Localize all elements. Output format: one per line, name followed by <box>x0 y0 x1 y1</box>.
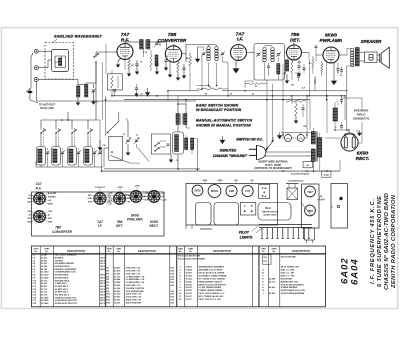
svg-text:22-716: 22-716 <box>41 292 48 294</box>
socket X2 7B8 converter <box>34 211 46 223</box>
wire riser osc <box>167 90 169 101</box>
svg-text:40 MMFD: 40 MMFD <box>55 256 64 259</box>
svg-text:(W) IN OHM MEG.: (W) IN OHM MEG. <box>281 256 297 258</box>
svg-text:+250V: +250V <box>117 187 123 189</box>
transformer T6 power secondary <box>318 138 322 158</box>
tube V1 7A7 RF <box>117 44 133 60</box>
coil L2 antenna primary <box>77 86 80 97</box>
svg-text:DIAL 1.0 - TN1: DIAL 1.0 - TN1 <box>281 272 295 275</box>
svg-text:SPKR: SPKR <box>218 180 224 182</box>
svg-text:6X5G: 6X5G <box>194 190 200 193</box>
svg-text:S-W: S-W <box>171 276 175 278</box>
wire T1 to converter <box>150 41 167 43</box>
svg-text:GRID: GRID <box>48 203 53 205</box>
svg-text:R16 63-598 45 OHM W/RHEO.: R16 63-598 45 OHM W/RHEO. <box>178 257 206 260</box>
svg-text:D: D <box>251 204 253 208</box>
wire osc top <box>177 104 179 114</box>
svg-text:I.F. 455 TRANSFORMER: I.F. 455 TRANSFORMER <box>199 286 222 289</box>
resistor R16 screen <box>321 63 323 71</box>
svg-text:SWITCH ON V.C.: SWITCH ON V.C. <box>236 138 263 142</box>
svg-text:898 E: 898 E <box>100 269 105 271</box>
resistor R10 diode load <box>277 64 280 75</box>
coil L3 antenna secondary <box>85 85 88 98</box>
svg-text:R.F. SHUNT & OSC. ASSEM.: R.F. SHUNT & OSC. ASSEM. <box>199 277 226 280</box>
svg-text:63-821: 63-821 <box>114 291 121 293</box>
transformer T6 core <box>315 132 317 162</box>
svg-text:B+PLATE: B+PLATE <box>48 193 57 195</box>
svg-text:S-W: S-W <box>171 279 175 281</box>
svg-text:22-1406: 22-1406 <box>41 302 49 305</box>
trimmer C14 <box>46 151 49 153</box>
svg-text:.1 MFD 400 V.: .1 MFD 400 V. <box>55 282 68 285</box>
resistor R11 grid leak <box>312 58 314 68</box>
terminal E2 <box>34 66 38 70</box>
svg-text:S-W: S-W <box>171 300 175 302</box>
svg-text:455 W OHM WW.: 455 W OHM WW. <box>126 301 142 304</box>
wire band bank risers <box>95 62 97 120</box>
transformer can rounded <box>214 203 239 226</box>
capacitor C19 <box>337 68 340 70</box>
svg-text:C-: C- <box>331 207 333 209</box>
component small box right of insert text <box>303 162 313 168</box>
svg-text:No.: No. <box>179 251 183 253</box>
svg-text:2800 MFD MICA: 2800 MFD MICA <box>55 279 71 282</box>
svg-text:AUTOMATIC TUNING FRAME: AUTOMATIC TUNING FRAME <box>199 274 227 277</box>
ground C4 osc <box>170 154 172 158</box>
wire coil tops <box>78 84 86 86</box>
tube V6 6X5G rectifier <box>341 134 358 151</box>
resistor R13 bleeder <box>295 104 298 116</box>
svg-text:8 MFD ELECTROLYTIC: 8 MFD ELECTROLYTIC <box>55 297 77 299</box>
plug P1 AC <box>257 146 266 160</box>
svg-text:63-558: 63-558 <box>114 282 121 284</box>
svg-text:S-W: S-W <box>171 282 175 284</box>
svg-text:SCR: SCR <box>48 218 53 220</box>
tube V4 7B6 det <box>287 45 302 60</box>
svg-text:22-1405: 22-1405 <box>41 299 49 302</box>
svg-text:RECT.: RECT. <box>356 156 370 161</box>
svg-text:63-557: 63-557 <box>114 300 121 302</box>
wire 2nd IF connections <box>247 52 255 54</box>
svg-text:6K6G: 6K6G <box>211 189 219 193</box>
svg-text:AVC: AVC <box>26 218 31 220</box>
resistor R9 det load <box>291 61 293 73</box>
svg-text:S-W: S-W <box>171 268 175 270</box>
svg-text:22-1408: 22-1408 <box>41 276 49 279</box>
svg-text:A-⊕: A-⊕ <box>261 187 268 190</box>
svg-text:CHASSIS Nº 6A02-AC-TWO BAND: CHASSIS Nº 6A02-AC-TWO BAND <box>383 192 390 290</box>
svg-text:52-858: 52-858 <box>269 278 276 280</box>
svg-text:CONVERTER: CONVERTER <box>52 230 73 234</box>
resistor R15 osc series <box>150 55 152 67</box>
svg-text:GND: GND <box>27 221 32 223</box>
svg-text:S-8415: S-8415 <box>186 269 193 272</box>
wire bus y99.7 <box>124 99 310 101</box>
transformer T1 RF coupling <box>140 40 143 50</box>
svg-text:22-675: 22-675 <box>41 263 48 265</box>
ground converter cathode <box>169 60 171 73</box>
parts table frame <box>32 246 326 307</box>
svg-text:2000 MFD MICA: 2000 MFD MICA <box>55 265 71 268</box>
svg-text:2000Ω(HOT): 2000Ω(HOT) <box>352 117 369 121</box>
svg-text:AVC: AVC <box>26 198 31 200</box>
speaker cutout rounded <box>196 203 212 226</box>
svg-text:DIAL 1.0 - TN2: DIAL 1.0 - TN2 <box>281 274 295 277</box>
side panel <box>331 184 348 229</box>
svg-text:.05 MFD 400 V.: .05 MFD 400 V. <box>55 285 69 288</box>
parts table column rules <box>39 246 41 307</box>
speaker LS1 voice coil box <box>365 52 378 63</box>
wire pwr grid <box>316 54 323 56</box>
speaker field coil L30 <box>333 108 338 121</box>
svg-text:S-W: S-W <box>171 294 175 296</box>
svg-text:10 MFD ELECTROLYTIC: 10 MFD ELECTROLYTIC <box>55 300 78 302</box>
socket X5 6K6G <box>130 191 142 203</box>
trimmer C28 2nd IF <box>277 53 280 55</box>
svg-text:6K6G: 6K6G <box>203 180 208 182</box>
svg-text:No.: No. <box>108 251 112 253</box>
wire osc bottom bus <box>104 168 200 170</box>
svg-text:DENOTES: DENOTES <box>220 149 237 153</box>
svg-text:No.: No. <box>262 251 266 253</box>
svg-text:SHORT WAVE ANTENNA: SHORT WAVE ANTENNA <box>281 292 305 295</box>
svg-text:S-W: S-W <box>171 285 175 287</box>
switch blade diagonal mid <box>138 148 150 162</box>
svg-text:PADDER CONDENSER: PADDER CONDENSER <box>55 268 77 271</box>
speaker LS1 horn <box>379 53 381 63</box>
pilot lamp I2 <box>297 135 304 142</box>
wire RF plate <box>124 42 126 45</box>
svg-text:896 E: 896 E <box>100 297 105 299</box>
svg-text:95-593: 95-593 <box>186 284 193 286</box>
svg-text:PART: PART <box>188 248 194 251</box>
svg-text:PWR.AMP.: PWR.AMP. <box>127 218 143 222</box>
svg-text:7A7: 7A7 <box>245 189 251 193</box>
svg-text:893 E: 893 E <box>100 280 105 282</box>
svg-text:22-661: 22-661 <box>41 257 48 259</box>
wire terminal bus down <box>35 82 37 102</box>
svg-text:7B6: 7B6 <box>229 189 235 193</box>
trimmer C16 <box>77 151 80 153</box>
tube top 7B8 <box>305 205 316 216</box>
svg-text:PILOT: PILOT <box>239 231 250 235</box>
svg-text:22-182: 22-182 <box>41 266 48 268</box>
svg-text:22-775: 22-775 <box>41 280 48 282</box>
trimmer C17 <box>93 151 96 153</box>
svg-text:MTG. TERMS. SH.WH. AT#: MTG. TERMS. SH.WH. AT# <box>199 295 225 298</box>
svg-text:893 E: 893 E <box>100 300 105 302</box>
svg-text:7B8: 7B8 <box>168 32 177 37</box>
socket X6 6X5G rect <box>148 191 160 203</box>
svg-text:93-107: 93-107 <box>186 299 193 301</box>
wire output secondary down <box>346 66 348 130</box>
trimmer C6 <box>155 42 158 44</box>
resistor R14 divider <box>286 100 306 102</box>
ground 1st IF left <box>197 47 199 57</box>
trimmer C24 1st IF <box>221 52 224 54</box>
svg-text:95-506: 95-506 <box>186 281 193 283</box>
svg-text:.05 MFD 200 V.: .05 MFD 200 V. <box>55 292 69 294</box>
svg-text:WAFER SWITCH: WAFER SWITCH <box>262 212 278 214</box>
ground symbol legend <box>222 136 224 138</box>
capacitor C22 <box>167 143 170 145</box>
svg-text:POWER TRANSFORMER: POWER TRANSFORMER <box>199 289 223 292</box>
dial cable comb connector <box>259 224 312 226</box>
svg-text:(C) MAINS PLUG: (C) MAINS PLUG <box>288 180 304 182</box>
wire speaker leads <box>360 51 365 54</box>
svg-text:4-80 MMFD PADDER: 4-80 MMFD PADDER <box>55 262 75 265</box>
wire converter plate <box>173 44 175 46</box>
trimmer C23 1st IF <box>202 52 205 54</box>
svg-text:GND: GND <box>88 198 93 200</box>
capacitor C30 <box>315 45 318 47</box>
chassis rear view box <box>186 184 278 226</box>
svg-text:PILOT LIGHT 6.3 V. #44: PILOT LIGHT 6.3 V. #44 <box>199 298 222 301</box>
wire pilot lamps <box>281 132 311 134</box>
svg-text:AC: AC <box>142 196 146 198</box>
svg-text:DIAL 1.0 - BRL: DIAL 1.0 - BRL <box>281 269 296 272</box>
svg-text:PART: PART <box>116 248 122 251</box>
trimmer C2 <box>92 89 95 91</box>
svg-text:I.F.: I.F. <box>98 224 103 228</box>
svg-text:S-W: S-W <box>171 273 175 275</box>
antenna loop coil <box>59 58 62 66</box>
socket X3 7A7 IF <box>94 193 106 205</box>
switch S1 antenna <box>93 56 94 57</box>
svg-text:SHIELDED WAVEMAGNET: SHIELDED WAVEMAGNET <box>54 35 103 39</box>
svg-text:I.F.: I.F. <box>237 37 243 42</box>
svg-text:95-412: 95-412 <box>186 289 193 292</box>
svg-text:MANUAL-AUTOMATIC SWITCH: MANUAL-AUTOMATIC SWITCH <box>196 119 253 123</box>
svg-text:S-W: S-W <box>171 271 175 273</box>
svg-text:DESCRIPTION: DESCRIPTION <box>138 249 156 253</box>
svg-text:I.F. FREQUENCY 455 K.C.: I.F. FREQUENCY 455 K.C. <box>370 199 376 284</box>
svg-text:S'WAVE PADDER: S'WAVE PADDER <box>281 286 298 289</box>
svg-text:(OPPOSITE TO WAVEMAGNET): (OPPOSITE TO WAVEMAGNET) <box>254 167 291 170</box>
capacitor C8 <box>113 89 116 91</box>
svg-text:63-475: 63-475 <box>114 301 121 304</box>
oscillator coil L20 <box>173 132 184 154</box>
tube top 7B7 <box>305 186 316 197</box>
wire AC lines <box>266 151 311 153</box>
svg-text:63-512: 63-512 <box>114 271 121 273</box>
capacitor C33 <box>302 107 305 109</box>
svg-text:SPEAKER: SPEAKER <box>361 39 383 44</box>
ground pwr cathode <box>333 63 335 79</box>
capacitor C10 <box>182 67 185 69</box>
socket X4 7B6 det <box>114 193 126 205</box>
svg-text:899 E: 899 E <box>100 277 105 279</box>
svg-text:R14: R14 <box>264 256 267 259</box>
wafer switch M-A <box>258 203 291 221</box>
wire gang to grid <box>127 121 129 137</box>
svg-text:PART: PART <box>272 248 278 251</box>
svg-text:S-8417: S-8417 <box>186 272 193 275</box>
coil L11 band coil <box>51 147 60 166</box>
svg-text:R15 63-475 455 W OHM: R15 63-475 455 W OHM <box>178 254 200 257</box>
switch S2c wave band <box>71 132 72 133</box>
transformer T5 output <box>351 49 354 52</box>
power unit tab <box>305 228 315 240</box>
svg-text:22-689: 22-689 <box>41 255 48 257</box>
svg-text:63-479: 63-479 <box>114 284 121 287</box>
svg-text:22-637: 22-637 <box>41 283 48 285</box>
svg-text:15 M WIREWOUND: 15 M WIREWOUND <box>126 291 145 293</box>
svg-text:DESCRIPTION: DESCRIPTION <box>292 249 310 253</box>
ground antenna coil <box>77 97 79 101</box>
wire osc right riser <box>196 138 198 169</box>
svg-text:S-W: S-W <box>171 297 175 299</box>
svg-text:RECT.: RECT. <box>149 224 159 228</box>
svg-text:No.: No. <box>273 251 277 253</box>
svg-text:895 E: 895 E <box>100 295 105 297</box>
ground bleeder <box>295 116 297 119</box>
svg-text:63-448: 63-448 <box>114 278 121 281</box>
wire bus AVC y95.8 <box>112 95 345 97</box>
svg-text:SHORT WAVE OSC.(S.W.): SHORT WAVE OSC.(S.W.) <box>281 289 306 292</box>
terminal E1 <box>34 49 38 53</box>
antenna loop frame <box>52 50 69 72</box>
svg-text:A.F.: A.F. <box>301 88 306 90</box>
svg-text:895 E: 895 E <box>100 266 105 268</box>
ground pilot <box>279 133 281 134</box>
svg-text:PWR.AMP.: PWR.AMP. <box>320 38 343 43</box>
svg-text:93-107: 93-107 <box>186 296 193 298</box>
svg-text:GND: GND <box>107 202 112 204</box>
svg-text:53-401: 53-401 <box>269 292 276 295</box>
capacitor C34 <box>340 99 343 101</box>
svg-text:IN BROADCAST POSITION: IN BROADCAST POSITION <box>196 108 242 112</box>
svg-text:140 MFD: 140 MFD <box>55 259 64 262</box>
capacitor C26b <box>303 67 306 69</box>
svg-text:22-775: 22-775 <box>41 289 48 291</box>
terminal E3 <box>34 78 38 82</box>
svg-text:63-631: 63-631 <box>114 273 121 275</box>
capacitor C29 small <box>267 65 270 67</box>
trimmer C15 <box>61 151 64 153</box>
switch S2a wave band <box>40 132 41 133</box>
svg-text:S'CAST ANT.(SH.WAVE): S'CAST ANT.(SH.WAVE) <box>281 283 304 286</box>
svg-text:892 E: 892 E <box>100 283 105 285</box>
svg-text:IN ALL GND: IN ALL GND <box>40 107 54 110</box>
switch S5 power on VC <box>267 142 273 150</box>
svg-text:WAVEMAGNET ASSEMBLY: WAVEMAGNET ASSEMBLY <box>199 266 225 269</box>
oscillator coil L21 shortwave <box>185 138 188 150</box>
transformer T3 1st IF <box>207 47 210 50</box>
parts table sub box <box>263 255 272 265</box>
terminal box C D <box>240 203 256 216</box>
svg-text:OSCILLATOR COIL ASSEM.: OSCILLATOR COIL ASSEM. <box>199 272 226 275</box>
svg-text:DET.: DET. <box>116 224 123 228</box>
svg-text:63-166: 63-166 <box>114 288 121 290</box>
svg-text:6X5G: 6X5G <box>357 150 369 155</box>
svg-text:22-651: 22-651 <box>41 260 48 262</box>
switch blade diagonal left <box>110 155 130 163</box>
svg-text:M-A: M-A <box>265 206 271 210</box>
capacitor C35 <box>340 125 343 127</box>
capacitor C26 <box>298 65 301 67</box>
svg-text:VOLUME CONTROL: VOLUME CONTROL <box>126 288 146 290</box>
svg-text:45-110: 45-110 <box>269 280 276 283</box>
gang dashed links vertical <box>43 128 45 146</box>
wire bus B+ y171 <box>102 170 341 172</box>
svg-text:6 TUBE SUPERHETERODYNE: 6 TUBE SUPERHETERODYNE <box>377 195 383 287</box>
svg-text:GND: GND <box>27 202 32 204</box>
battery terminal box A B <box>259 185 270 199</box>
svg-text:S-8471: S-8471 <box>186 266 193 269</box>
svg-text:6A04: 6A04 <box>350 258 361 285</box>
svg-text:PART: PART <box>44 248 50 251</box>
svg-text:63-967: 63-967 <box>114 297 121 299</box>
svg-text:J: J <box>262 293 263 295</box>
svg-text:R.F.: R.F. <box>36 186 42 190</box>
svg-text:REGISTRAT: REGISTRAT <box>281 277 293 280</box>
volume control R8 <box>285 60 288 71</box>
wire 1st IF connections <box>186 44 209 46</box>
coil L12 band coil <box>67 147 76 166</box>
svg-text:AVC: AVC <box>87 195 92 197</box>
socket X1 7A7 RF <box>34 193 46 205</box>
svg-text:899 E: 899 E <box>100 275 105 277</box>
coil L13 band coil <box>83 147 92 166</box>
capacitor C9 <box>164 59 167 61</box>
svg-text:891 E: 891 E <box>100 286 105 288</box>
svg-text:896 E: 896 E <box>100 260 105 262</box>
svg-text:894 E: 894 E <box>100 291 105 294</box>
svg-text:R15: R15 <box>264 261 267 263</box>
coil L10 band coil <box>36 147 45 166</box>
svg-text:+255V: +255V <box>134 186 140 188</box>
capacitor C3 tuning gang 1 <box>126 139 129 141</box>
svg-text:(C) USED ON (6A02): (C) USED ON (6A02) <box>291 173 309 175</box>
svg-text:ANTENNA COIL SYSTEM: ANTENNA COIL SYSTEM <box>199 269 223 272</box>
svg-text:22-1406: 22-1406 <box>41 296 49 299</box>
wire rectifier <box>325 137 340 139</box>
svg-text:ZENITH RADIO CORPORATION: ZENITH RADIO CORPORATION <box>391 194 397 289</box>
svg-text:PILOT LIGHT ASSEM. 6.3 V.: PILOT LIGHT ASSEM. 6.3 V. <box>199 292 226 295</box>
svg-text:200 MFD MICA: 200 MFD MICA <box>55 276 69 279</box>
svg-text:63-557: 63-557 <box>114 268 121 270</box>
wire extra verticals <box>189 66 191 91</box>
svg-text:95-654: 95-654 <box>186 274 193 277</box>
svg-text:SHOWN IN MANUAL POSITION: SHOWN IN MANUAL POSITION <box>196 124 251 128</box>
svg-text:CHASSIS “GROUND”: CHASSIS “GROUND” <box>213 154 248 158</box>
svg-text:897 E: 897 E <box>100 263 105 265</box>
svg-text:C: C <box>244 204 246 208</box>
wire terminal leads <box>38 50 51 52</box>
capacitor C9 mid <box>135 87 138 89</box>
antenna L1 wavemagnet dashed shield box <box>45 43 74 80</box>
power unit box <box>302 184 320 228</box>
svg-text:LIGHTS: LIGHTS <box>240 236 253 240</box>
antenna post <box>27 91 32 94</box>
svg-text:B+248: B+248 <box>324 173 329 176</box>
resistor R3 <box>177 62 180 72</box>
wire antenna to switch <box>46 79 78 81</box>
ground mid cluster <box>147 88 149 91</box>
wire RF grid <box>96 51 118 53</box>
svg-text:22-637: 22-637 <box>41 286 48 288</box>
ground left of manual-auto <box>99 140 101 146</box>
svg-text:7A7: 7A7 <box>121 32 130 37</box>
svg-text:45-993: 45-993 <box>269 286 276 289</box>
ground IF cathode <box>235 60 237 66</box>
tube top 6X5G <box>192 185 203 196</box>
svg-text:7B7: 7B7 <box>307 190 313 194</box>
svg-text:95-413: 95-413 <box>186 286 193 289</box>
svg-text:S-W: S-W <box>171 291 175 293</box>
wire top bus band coils <box>41 119 96 121</box>
